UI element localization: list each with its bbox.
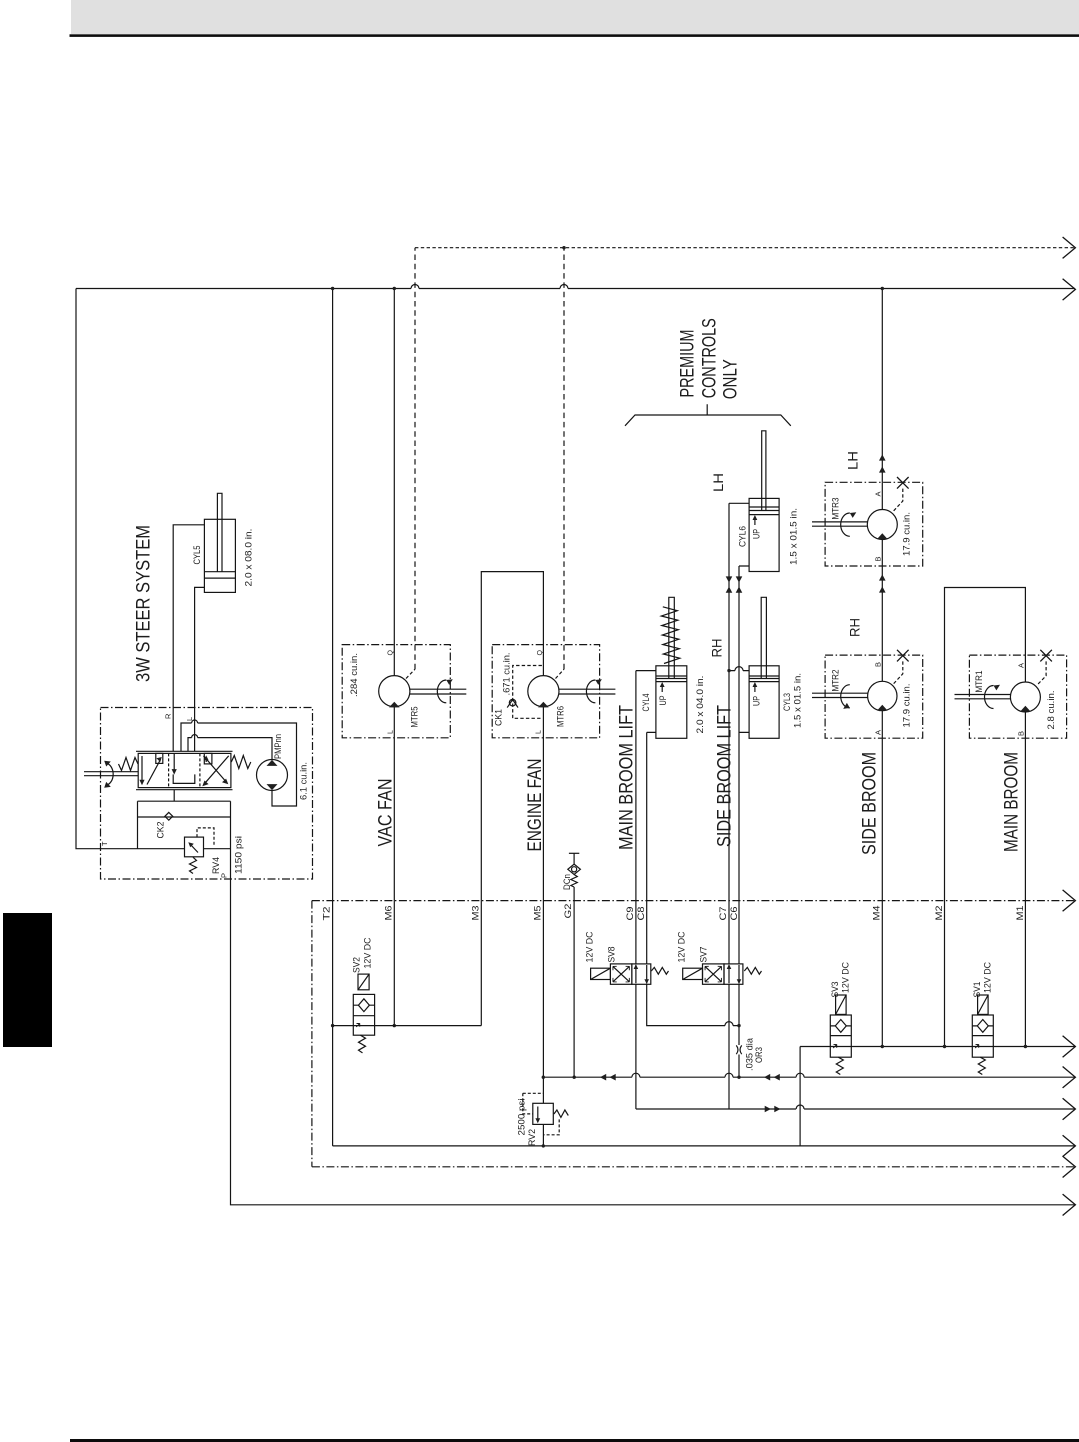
check valve CK2 [165, 812, 173, 820]
svg-text:MTR5: MTR5 [410, 707, 421, 728]
wire: C7 cylinder line [728, 503, 730, 964]
plugged port X (MTR1) [1040, 650, 1052, 662]
wire: L line to CYL5 rod end [195, 587, 205, 751]
wire: supply rail y=1109 [636, 1108, 1075, 1110]
check valve CK1 bypass [507, 666, 542, 719]
node: flow arrows above MTR3 [879, 454, 886, 472]
orifice OR3 [736, 1045, 741, 1054]
svg-text:RH: RH [847, 618, 863, 637]
svg-text:M5: M5 [533, 906, 544, 921]
wire: VAC FAN supply M6 [393, 289, 395, 1026]
svg-text:LH: LH [845, 451, 861, 470]
svg-text:A: A [1016, 663, 1025, 668]
node: junction dots [331, 246, 1027, 1148]
svg-text:C8: C8 [636, 907, 647, 921]
node: arrow end of main top rail [1063, 279, 1076, 300]
wire: SV2 rail T2 to M3 [333, 1025, 482, 1027]
svg-text:CK1: CK1 [494, 709, 505, 726]
svg-text:CK2: CK2 [156, 822, 167, 839]
svg-text:CONTROLS: CONTROLS [700, 318, 721, 398]
pump PMPnn [257, 760, 288, 791]
node: arrow end of drain rail [1063, 237, 1076, 258]
wire: C7 branch to CYL3 [729, 670, 749, 672]
svg-text:M4: M4 [872, 906, 883, 921]
wire: pressure rail to SV3/SV1 [800, 1046, 1075, 1048]
wire: MTR6 case drain (dashed) [556, 669, 565, 678]
svg-text:T2: T2 [322, 907, 333, 921]
spool right cell crossed arrows [202, 753, 228, 786]
svg-text:L: L [388, 730, 395, 734]
svg-text:M6: M6 [383, 906, 394, 921]
steering unit boundary box [101, 708, 313, 880]
wire: ENGINE FAN M3 loop [481, 572, 543, 1026]
spool centre cell tank [172, 753, 195, 783]
wire: top drain rail (dashed) [406, 248, 1075, 679]
svg-text:6.1 cu.in.: 6.1 cu.in. [299, 762, 310, 800]
motor MTR3 [812, 510, 897, 540]
node: flow arrows return rail (right) [764, 1074, 780, 1081]
motor MTR2 [812, 681, 897, 710]
svg-text:3W STEER SYSTEM: 3W STEER SYSTEM [134, 525, 155, 682]
motor MTR3 boundary box [825, 482, 923, 566]
spool springs [119, 756, 251, 771]
header grey bar [71, 0, 1079, 34]
svg-text:12V DC: 12V DC [983, 962, 994, 993]
label PREMIUM CONTROLS ONLY [678, 318, 742, 399]
wire: tank rail bottom [333, 1145, 1075, 1147]
svg-text:12V DC: 12V DC [363, 937, 374, 968]
steering spool valve body [136, 751, 233, 789]
svg-text:SV3: SV3 [830, 982, 841, 998]
wire: return rail y=1077 [543, 1076, 1075, 1078]
svg-text:C7: C7 [718, 907, 729, 921]
label UP (CYL6) [752, 515, 763, 539]
node: hops on return rail [632, 1073, 804, 1077]
svg-text:1.5 x 01.5 in.: 1.5 x 01.5 in. [793, 673, 804, 728]
spring on CYL4 rod [661, 607, 680, 664]
steering wheel symbol [84, 761, 138, 788]
wire: MAIN BROOM M1 line [1024, 712, 1026, 1047]
cylinder CYL3 [749, 597, 779, 738]
wire: main top rail [76, 285, 1075, 289]
wire: C6 cylinder line [739, 566, 749, 964]
relief valve RV4 [185, 828, 215, 874]
svg-text:17.9 cu.in.: 17.9 cu.in. [902, 684, 913, 728]
svg-text:T: T [100, 841, 109, 846]
wire: SV8 T leg [647, 984, 739, 1025]
svg-text:C6: C6 [729, 907, 740, 921]
svg-text:L: L [536, 730, 543, 734]
node: arrow manifold bottom [1063, 1156, 1076, 1177]
node: arrow P line [1063, 1194, 1076, 1215]
svg-text:PMPnn: PMPnn [273, 734, 284, 759]
wire: drop leg x=800 [799, 1047, 801, 1146]
svg-text:RV4: RV4 [211, 857, 222, 874]
node: hop C7 branch [735, 667, 743, 671]
svg-text:MTR1: MTR1 [974, 671, 985, 693]
svg-text:ENGINE FAN: ENGINE FAN [525, 759, 546, 852]
port labels manifold [322, 904, 1026, 921]
svg-text:2500 psi: 2500 psi [517, 1099, 528, 1136]
node: arrow end tank rail [1063, 1135, 1076, 1156]
svg-text:2.0 x 04.0 in.: 2.0 x 04.0 in. [695, 676, 706, 734]
wire: internal rails below spool [138, 801, 231, 879]
svg-text:.284 cu.in.: .284 cu.in. [349, 653, 360, 697]
footer rule [70, 1439, 1079, 1442]
wire: pump top link [188, 735, 272, 760]
svg-text:SV7: SV7 [699, 947, 710, 963]
plugged port X (MTR3) [897, 477, 909, 489]
node: arrow manifold top [1063, 890, 1076, 911]
svg-text:OR3: OR3 [754, 1047, 765, 1063]
node: boundary flow arrows C7 C6 [726, 576, 743, 592]
svg-text:UP: UP [752, 529, 763, 539]
motor MTR5 [379, 676, 467, 708]
node: flow arrows below MTR3 [879, 574, 886, 592]
VAC FAN boundary box [342, 645, 450, 738]
svg-text:VAC FAN: VAC FAN [376, 779, 397, 847]
ENGINE FAN boundary box [492, 645, 599, 738]
motor MTR1 [955, 682, 1041, 712]
node: hop SV8 T leg [725, 1022, 733, 1026]
svg-text:ONLY: ONLY [721, 359, 742, 399]
svg-text:MTR3: MTR3 [831, 498, 842, 520]
node: flow arrows return rail (left) [600, 1074, 616, 1081]
wire: left return loop to T port [76, 289, 138, 849]
svg-text:A: A [873, 491, 882, 496]
svg-text:SV1: SV1 [972, 982, 983, 998]
cylinder CYL4 [656, 597, 687, 738]
side tab black rectangle [3, 913, 52, 1047]
svg-text:17.9 cu.in.: 17.9 cu.in. [902, 512, 913, 556]
drain dash (MTR3) [894, 489, 903, 511]
svg-text:1150 psi: 1150 psi [234, 836, 245, 874]
svg-text:CYL3: CYL3 [782, 693, 793, 711]
label UP (CYL4) [658, 682, 669, 706]
wire: T rail inside box [138, 848, 231, 850]
svg-text:MAIN BROOM: MAIN BROOM [1002, 752, 1023, 852]
wire: valve tank drop [173, 790, 175, 802]
svg-text:M2: M2 [934, 906, 945, 921]
svg-text:CYL6: CYL6 [738, 526, 749, 547]
manifold boundary (dash-dot) [312, 901, 1075, 1167]
wire: T2 line [332, 289, 334, 1146]
svg-text:LH: LH [710, 473, 726, 492]
motor MTR1 boundary box [969, 655, 1066, 738]
svg-text:2.0 x 08.0 in.: 2.0 x 08.0 in. [244, 529, 255, 587]
svg-text:RV2: RV2 [527, 1129, 538, 1146]
svg-text:B: B [1016, 731, 1025, 736]
svg-text:M3: M3 [471, 906, 482, 921]
wire: SIDE BROOM feed line [881, 289, 883, 1047]
svg-text:M1: M1 [1015, 905, 1026, 920]
node: arrow return rail [1063, 1067, 1076, 1088]
label OR3 [745, 1037, 766, 1071]
spool left cell arrows [139, 753, 162, 785]
wire: ENGINE FAN return M5 [542, 707, 544, 1146]
svg-text:R: R [164, 713, 173, 719]
wire: R line to CYL5 cap end [173, 525, 204, 752]
svg-text:MTR2: MTR2 [831, 670, 842, 692]
wire: SV7 leg through OR3 [738, 984, 740, 1077]
svg-text:SIDE BROOM LIFT: SIDE BROOM LIFT [715, 705, 736, 847]
label UP (CYL3) [752, 682, 763, 706]
svg-text:CYL5: CYL5 [192, 546, 203, 565]
svg-text:Q: Q [388, 650, 395, 656]
wire: SV8 P drop [635, 984, 637, 1109]
drain dash (MTR2) [894, 661, 903, 683]
plugged port X (MTR2) [897, 650, 909, 662]
premium brace [625, 404, 791, 426]
motor MTR6 [528, 676, 616, 708]
node: arrow pressure rail [1063, 1036, 1076, 1057]
svg-text:UP: UP [658, 696, 669, 706]
svg-text:12V DC: 12V DC [841, 962, 852, 993]
svg-text:A: A [873, 730, 882, 735]
svg-text:B: B [873, 662, 882, 667]
svg-text:2.8 cu.in.: 2.8 cu.in. [1046, 691, 1057, 730]
svg-text:12V DC: 12V DC [677, 931, 688, 962]
svg-text:B: B [873, 556, 882, 561]
node: flow arrows supply rail [765, 1106, 781, 1113]
wire: P line from steering to right edge [231, 879, 1076, 1205]
wire: C8 cylinder line [647, 732, 656, 964]
cylinder CYL6 [729, 431, 779, 572]
svg-text:MAIN BROOM LIFT: MAIN BROOM LIFT [617, 705, 638, 850]
node: hop supply rail [796, 1105, 804, 1109]
node: arrow supply rail [1063, 1098, 1076, 1119]
svg-text:RH: RH [709, 639, 725, 658]
svg-text:SIDE BROOM: SIDE BROOM [860, 752, 881, 855]
wire: SV7 P drop [728, 984, 730, 1109]
motor MTR2 boundary box [825, 655, 923, 738]
svg-text:Q: Q [537, 650, 544, 656]
svg-text:12V DC: 12V DC [585, 931, 596, 962]
svg-text:CYL4: CYL4 [641, 694, 652, 712]
wire: C9 cylinder line [636, 671, 656, 964]
wire: pump outer loop [181, 720, 297, 806]
wire: MAIN BROOM M2 loop [945, 588, 1026, 1047]
svg-text:.671 cu.in.: .671 cu.in. [502, 653, 513, 696]
svg-text:G2: G2 [563, 904, 574, 919]
svg-text:PREMIUM: PREMIUM [678, 330, 699, 398]
header rule [70, 34, 1079, 37]
svg-text:1.5 x 01.5 in.: 1.5 x 01.5 in. [789, 508, 800, 565]
cylinder CYL5 [204, 493, 235, 592]
drain dash (MTR1) [1037, 661, 1046, 685]
svg-text:MTR6: MTR6 [556, 706, 567, 727]
svg-text:SV2: SV2 [351, 957, 362, 973]
svg-text:C9: C9 [625, 907, 636, 921]
svg-text:DCn: DCn [562, 874, 573, 890]
svg-text:UP: UP [752, 696, 763, 706]
svg-text:SV8: SV8 [607, 947, 618, 963]
